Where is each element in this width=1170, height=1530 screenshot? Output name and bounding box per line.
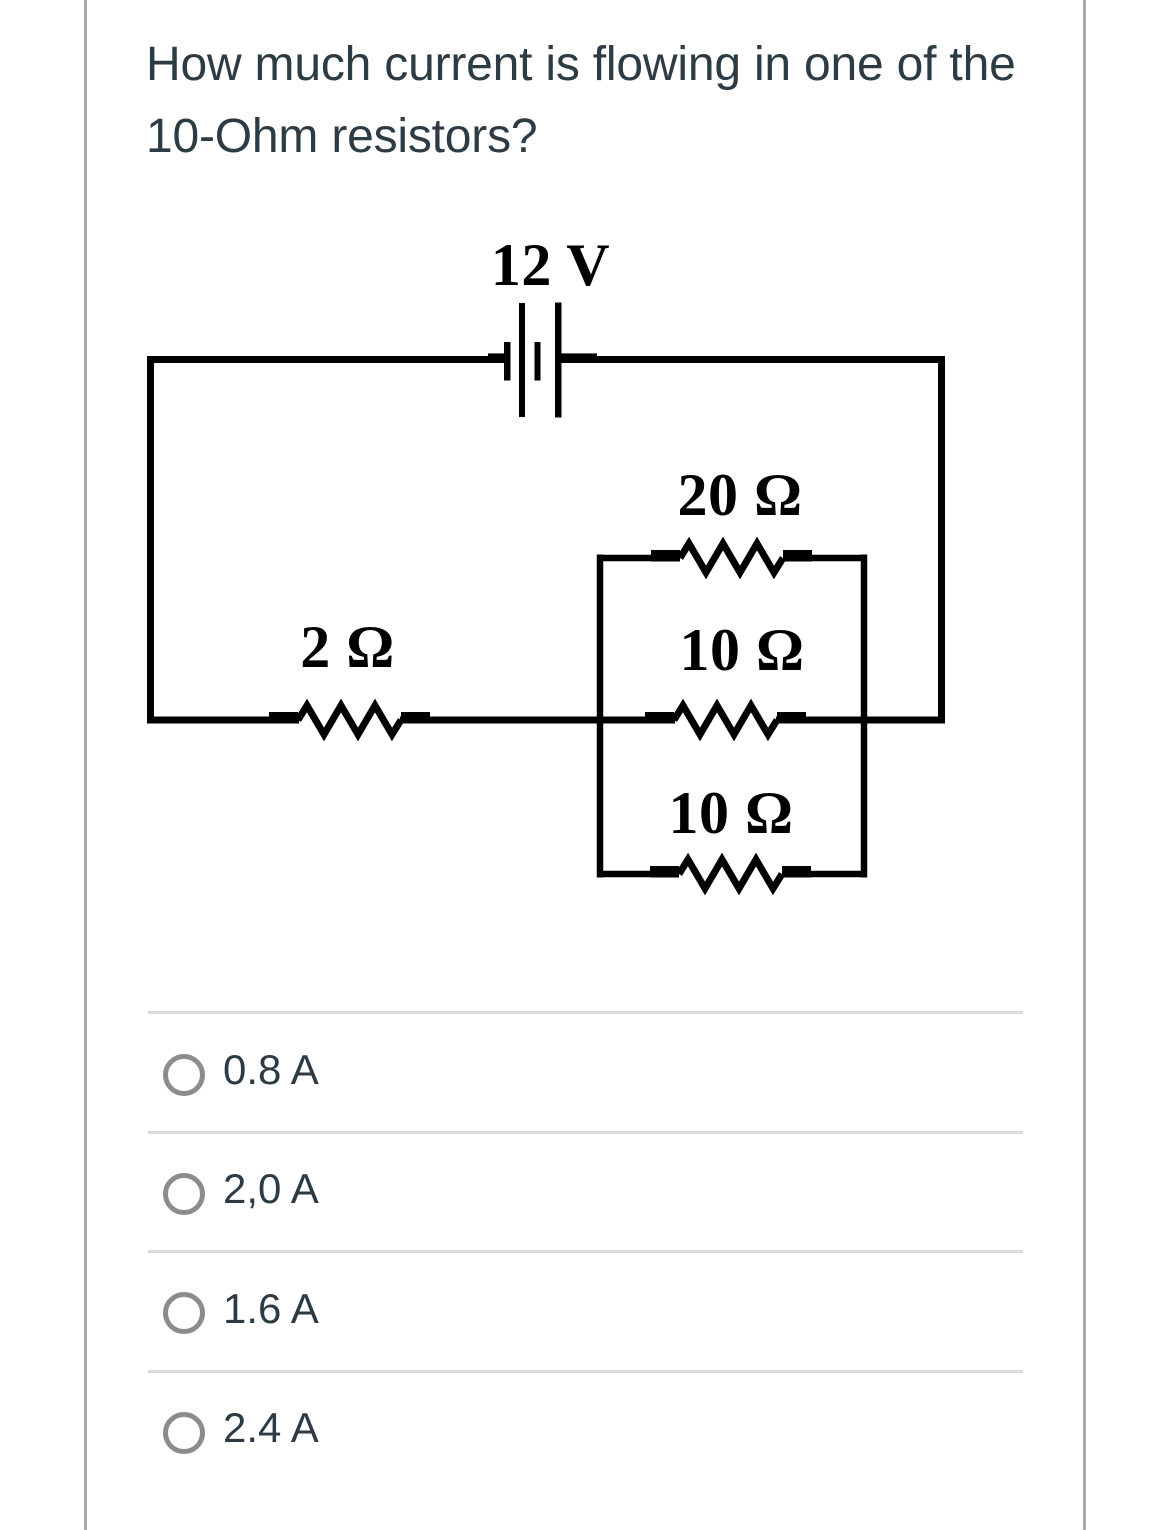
battery B1 tall plate 2	[555, 303, 562, 418]
svg-text:10 Ω: 10 Ω	[668, 780, 793, 846]
wire right vertical	[938, 356, 945, 724]
resistor R3 10ohm mid left lead	[645, 712, 674, 724]
resistor R3 10ohm mid right lead	[777, 712, 806, 724]
answer option text 1.6 A	[223, 1288, 319, 1330]
resistor R4 10ohm bottom zigzag	[679, 860, 782, 889]
resistor R1 2ohm right lead	[401, 712, 430, 724]
wire bottom middle segment	[400, 717, 675, 724]
resistor R2 20ohm zigzag	[680, 544, 783, 573]
answer divider 1	[148, 1011, 1023, 1014]
wire box top-left segment	[597, 555, 653, 562]
answer option radio 1	[163, 1054, 205, 1096]
answer divider 3	[148, 1250, 1023, 1253]
wire left vertical	[147, 356, 154, 724]
right page border	[1083, 0, 1086, 1530]
resistor R4 10ohm bottom right lead	[782, 866, 811, 878]
battery B1 short plate 2	[535, 342, 541, 381]
wire bottom right segment	[776, 717, 945, 724]
wire box bottom-left segment	[597, 871, 652, 878]
answer divider 2	[148, 1131, 1023, 1134]
left page border	[84, 0, 87, 1530]
answer option text 0.8 A	[223, 1049, 319, 1091]
resistor R1 2ohm zigzag	[298, 706, 401, 735]
wire parallel-box left vertical	[597, 555, 604, 878]
wire top-right (battery right lead)	[561, 356, 945, 363]
answer option radio 3	[163, 1292, 205, 1334]
battery B1 short plate 1	[504, 342, 511, 381]
resistor R1 2ohm left lead	[269, 712, 298, 724]
battery B1 tall plate 1	[519, 303, 525, 417]
resistor R2 20ohm right lead	[783, 550, 812, 562]
wire top-left (battery left lead)	[147, 356, 508, 363]
answer divider 4	[148, 1370, 1023, 1373]
svg-text:2 Ω: 2 Ω	[300, 614, 395, 680]
wire box bottom-right segment	[809, 871, 867, 878]
resistor R2 20ohm left lead	[651, 550, 680, 562]
wire bottom left segment	[147, 717, 299, 724]
wire box top-right segment	[810, 555, 867, 562]
svg-text:20 Ω: 20 Ω	[677, 462, 802, 528]
answer option text 2,0 A	[223, 1168, 319, 1210]
wire parallel-box right vertical	[861, 555, 868, 878]
resistor R4 10ohm bottom left lead	[650, 866, 679, 878]
resistor R3 10ohm mid zigzag	[674, 706, 777, 735]
svg-text:10 Ω: 10 Ω	[679, 617, 804, 683]
battery B1 left tick	[488, 353, 508, 362]
battery B1 right tick	[561, 353, 597, 362]
answer option text 2.4 A	[223, 1407, 319, 1449]
question text	[146, 29, 1016, 173]
svg-text:12 V: 12 V	[491, 240, 610, 298]
answer option radio 2	[163, 1173, 205, 1215]
answer option radio 4	[163, 1412, 205, 1454]
